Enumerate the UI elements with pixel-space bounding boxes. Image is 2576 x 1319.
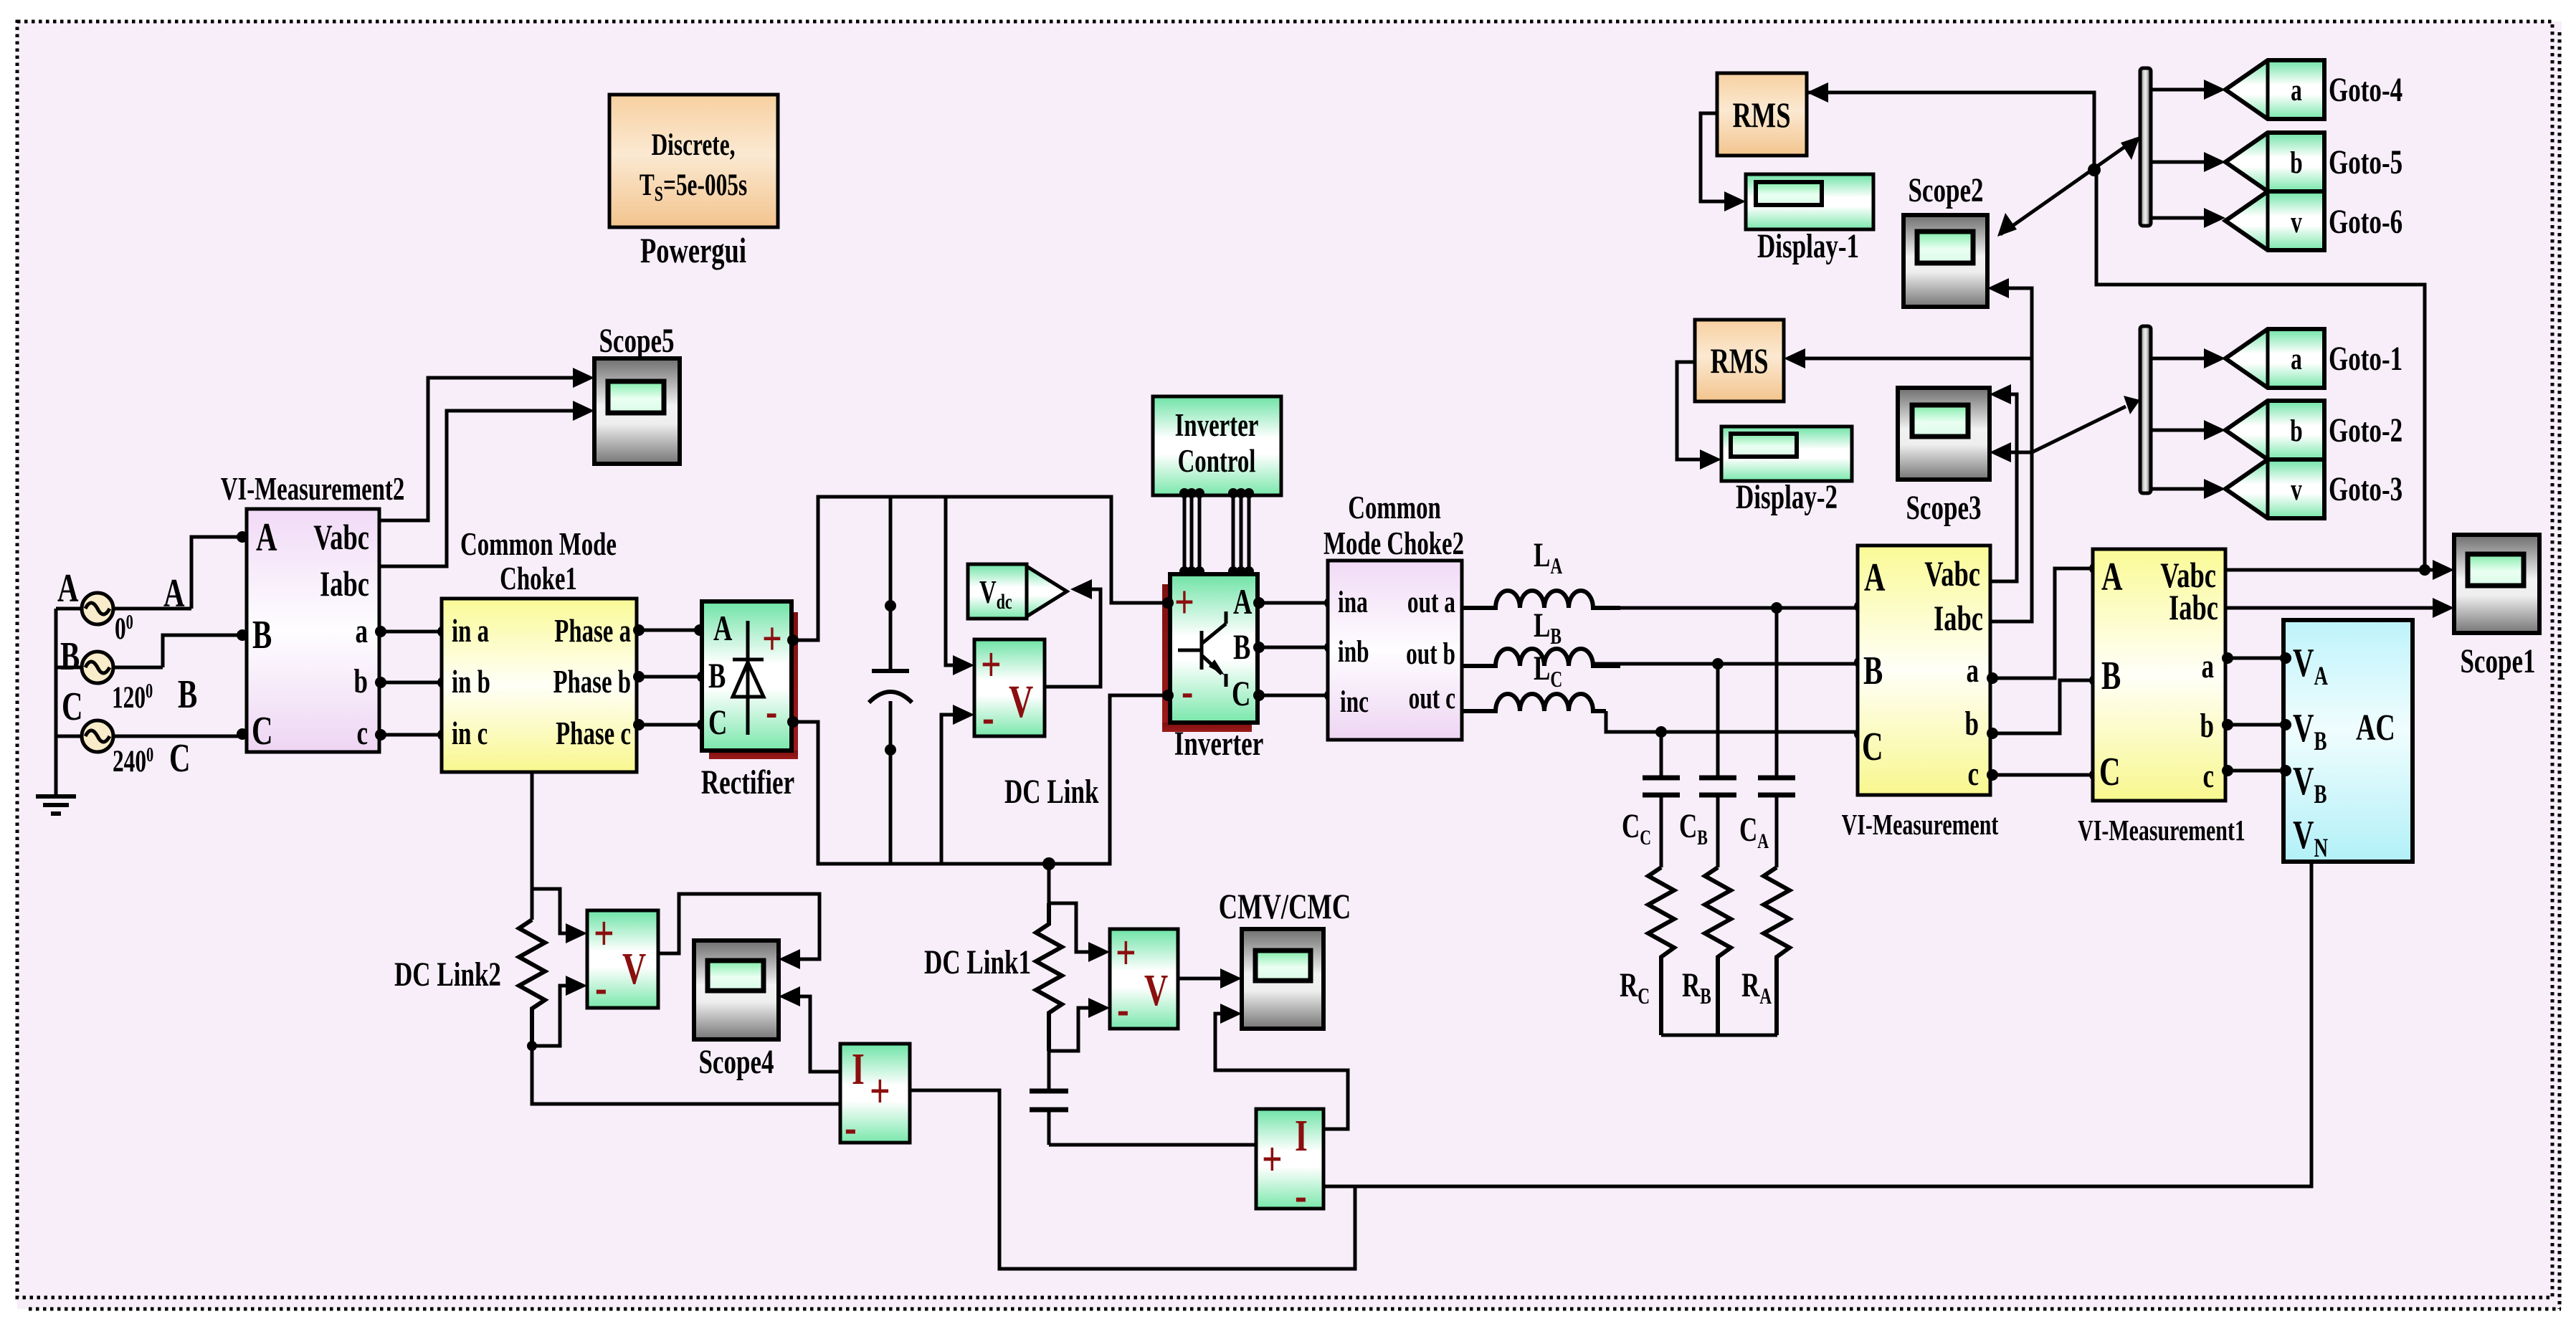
svg-text:RMS: RMS xyxy=(1710,342,1768,381)
wire VI-Measurement c to VI-Measurement1 C xyxy=(1987,769,2101,781)
svg-text:-: - xyxy=(1295,1168,1307,1223)
svg-text:a: a xyxy=(355,613,368,651)
Scope5 xyxy=(594,323,680,464)
svg-text:out a: out a xyxy=(1407,585,1455,619)
svg-text:A: A xyxy=(1864,555,1886,600)
wire RC network common bus xyxy=(1661,1034,1777,1037)
svg-text:Display-1: Display-1 xyxy=(1757,228,1859,266)
RMS block 1 xyxy=(1717,73,1807,156)
Display-1 block xyxy=(1746,174,1873,265)
wire Choke1 Phase c to Rectifier C xyxy=(633,719,708,730)
svg-text:b: b xyxy=(2290,146,2302,180)
svg-text:Display-2: Display-2 xyxy=(1736,479,1838,517)
svg-text:Phase b: Phase b xyxy=(553,664,631,700)
I1 current measurement block xyxy=(840,1044,910,1155)
Goto-1 tag xyxy=(2225,329,2402,388)
svg-text:Scope5: Scope5 xyxy=(599,323,674,361)
svg-text:DC Link1: DC Link1 xyxy=(924,944,1031,982)
wire source common bus to ground xyxy=(54,609,58,796)
Vdc display block xyxy=(968,564,1067,619)
svg-text:v: v xyxy=(2291,205,2302,239)
svg-text:Common Mode: Common Mode xyxy=(460,526,617,562)
wire LB to VI-Measurement B xyxy=(1594,657,1866,670)
svg-text:Vabc: Vabc xyxy=(1924,555,1980,594)
Common Mode Choke2 block xyxy=(1323,490,1464,740)
svg-text:c: c xyxy=(356,715,368,753)
svg-text:Goto-2: Goto-2 xyxy=(2329,412,2402,450)
svg-text:b: b xyxy=(354,663,368,701)
svg-text:a: a xyxy=(1966,652,1979,690)
resistor RB xyxy=(1682,867,1731,1035)
svg-text:I: I xyxy=(852,1044,865,1094)
VI-Measurement2 block xyxy=(221,471,405,753)
svg-text:in a: in a xyxy=(452,613,489,649)
svg-text:DC Link: DC Link xyxy=(1004,773,1099,811)
wire Choke1 Phase b to Rectifier B xyxy=(633,671,708,682)
svg-text:VI-Measurement2: VI-Measurement2 xyxy=(221,471,405,507)
svg-text:Phase c: Phase c xyxy=(556,715,631,751)
wire distribution diagonal to Scope2 and demux1 xyxy=(1997,136,2140,237)
svg-text:Scope2: Scope2 xyxy=(1908,172,1983,210)
wire demux2 to Goto-2 xyxy=(2151,420,2225,440)
svg-text:Goto-6: Goto-6 xyxy=(2329,204,2402,242)
svg-text:a: a xyxy=(2201,648,2214,686)
svg-text:V: V xyxy=(622,943,646,994)
svg-text:B: B xyxy=(178,672,197,717)
wire tap to V1 minus xyxy=(527,976,587,1051)
wire demux1 to Goto-4 xyxy=(2151,80,2225,100)
svg-text:in c: in c xyxy=(452,715,488,751)
wire V-block output to Vdc display xyxy=(1045,579,1101,687)
svg-text:Rectifier: Rectifier xyxy=(701,764,794,802)
svg-text:C: C xyxy=(62,684,83,729)
wire VI-Measurement1 a to AC VA xyxy=(2222,652,2291,664)
wire RMS1 to Display-1 xyxy=(1701,113,1746,211)
wire Vabc1 riser to top distribution xyxy=(2096,170,2425,570)
svg-text:inc: inc xyxy=(1340,685,1369,719)
svg-text:Scope1: Scope1 xyxy=(2460,643,2535,681)
capacitor DC Link1 xyxy=(1030,1051,1068,1145)
Common Mode Choke1 block xyxy=(442,526,637,772)
svg-text:in b: in b xyxy=(452,664,490,700)
svg-text:C: C xyxy=(2099,749,2121,794)
wire phase C to VI-Measurement2 C xyxy=(169,728,248,781)
svg-text:A: A xyxy=(713,609,733,649)
svg-text:inb: inb xyxy=(1338,634,1369,669)
svg-text:+: + xyxy=(1116,925,1136,981)
wire VI-Measurement1 b to AC VB xyxy=(2222,719,2291,730)
Goto-3 tag xyxy=(2225,459,2402,518)
wire VI-Measurement2 a to Choke1 in a xyxy=(375,626,449,637)
svg-text:Mode Choke2: Mode Choke2 xyxy=(1323,525,1464,561)
wire phase A to VI-Measurement2 A xyxy=(163,531,248,616)
wire VI-Measurement1 Vabc to Scope1 input 1 xyxy=(2225,560,2454,580)
wire Choke1 Phase a to Rectifier A xyxy=(633,624,705,636)
inductor LA xyxy=(1462,537,1620,608)
AC load block xyxy=(2283,620,2413,863)
svg-text:Powergui: Powergui xyxy=(640,232,746,271)
svg-text:V: V xyxy=(1009,676,1033,728)
svg-text:+: + xyxy=(762,612,782,665)
svg-text:+: + xyxy=(870,1064,890,1119)
svg-text:c: c xyxy=(2202,758,2214,796)
svg-text:-: - xyxy=(766,685,777,738)
wire phase B to VI-Measurement2 B xyxy=(163,629,248,717)
svg-text:+: + xyxy=(1262,1132,1283,1187)
DC link capacitor xyxy=(869,497,912,864)
Scope3 xyxy=(1898,388,1990,527)
svg-text:b: b xyxy=(2200,708,2214,746)
svg-text:Goto-5: Goto-5 xyxy=(2329,144,2402,182)
wire Iabc junction to Scope3 input 2 xyxy=(1990,442,2032,462)
capacitor CB xyxy=(1679,664,1736,867)
Scope2 xyxy=(1904,172,1987,307)
svg-text:A: A xyxy=(2101,554,2123,599)
V1 voltage measurement block xyxy=(587,906,658,1015)
wire LA to VI-Measurement A xyxy=(1594,601,1866,614)
wire V1 output to Scope4 input 1 xyxy=(658,894,819,969)
svg-text:Inverter: Inverter xyxy=(1175,407,1259,443)
wire DC plus tap to V-block plus xyxy=(946,497,974,675)
gate wires Inverter Control to Inverter xyxy=(1179,488,1254,576)
svg-text:VI-Measurement1: VI-Measurement1 xyxy=(2078,814,2245,847)
resistor DC Link1 xyxy=(924,903,1062,1051)
Inverter block xyxy=(1162,574,1265,763)
wire tap to V2 minus xyxy=(1049,998,1110,1051)
svg-text:Goto-3: Goto-3 xyxy=(2329,471,2402,509)
svg-text:b: b xyxy=(2290,414,2302,448)
inductor LB xyxy=(1462,607,1620,666)
svg-text:b: b xyxy=(1965,705,1979,743)
Display-2 block xyxy=(1721,427,1852,516)
svg-text:+: + xyxy=(1174,576,1194,629)
wire V-block minus to DC bottom rail xyxy=(941,705,974,864)
svg-text:B: B xyxy=(1233,628,1250,667)
wire VI-Measurement Iabc riser xyxy=(1987,278,2032,622)
Rectifier block xyxy=(701,601,798,801)
V2 voltage measurement block xyxy=(1110,925,1178,1037)
svg-text:v: v xyxy=(2291,472,2302,507)
demux bar 2 xyxy=(2140,326,2151,493)
wire demux2 to Goto-1 xyxy=(2151,348,2225,368)
svg-text:B: B xyxy=(708,657,726,696)
wire I2 output to CMV scope input 2 xyxy=(1215,1004,1348,1129)
demux bar 1 xyxy=(2140,68,2151,226)
svg-text:Inverter: Inverter xyxy=(1174,725,1264,763)
wire I2 minus to AC VN neutral xyxy=(1323,862,2311,1186)
inductor LC xyxy=(1462,650,1606,711)
Scope4 xyxy=(694,941,779,1081)
ground xyxy=(36,796,76,814)
svg-text:A: A xyxy=(256,515,277,560)
voltage source VA (0 deg) xyxy=(56,566,191,647)
svg-text:RMS: RMS xyxy=(1732,96,1790,135)
svg-text:V: V xyxy=(1144,965,1168,1015)
wire capacitor to I2 plus xyxy=(1049,1143,1256,1147)
I2 current measurement block xyxy=(1256,1109,1323,1223)
svg-text:DC Link2: DC Link2 xyxy=(394,956,501,994)
svg-text:VI-Measurement: VI-Measurement xyxy=(1842,808,1999,841)
wire Rectifier plus to DC top rail xyxy=(787,497,1166,646)
wire Inverter B to Choke2 inb xyxy=(1258,642,1336,653)
svg-text:Discrete,: Discrete, xyxy=(651,128,735,162)
svg-text:out c: out c xyxy=(1409,681,1455,715)
resistor RC xyxy=(1620,867,1674,1035)
wire demux1 to Goto-5 xyxy=(2151,152,2225,172)
wire DC bottom rail tap to DC Link1 xyxy=(1042,857,1110,962)
svg-text:C: C xyxy=(1232,675,1250,714)
svg-text:B: B xyxy=(2101,653,2121,698)
svg-text:B: B xyxy=(252,612,272,657)
svg-text:a: a xyxy=(2291,342,2302,376)
wire VI-Measurement Vabc to Scope3 input 1 xyxy=(1990,384,2017,581)
wire RMS2 to Display-2 xyxy=(1677,362,1721,470)
svg-text:+: + xyxy=(594,906,614,961)
wire Iabc junction to RMS2 xyxy=(1784,348,2032,368)
capacitor CC xyxy=(1622,732,1680,867)
svg-text:-: - xyxy=(1117,981,1129,1037)
svg-text:c: c xyxy=(1967,756,1979,794)
RMS block 2 xyxy=(1695,320,1784,401)
wire VI-Measurement2 c to Choke1 in c xyxy=(375,729,449,741)
wire VI-Measurement2 Iabc to Scope5 input 2 xyxy=(379,401,594,566)
Scope1 xyxy=(2454,535,2539,680)
wire Inverter A to Choke2 ina xyxy=(1258,597,1336,609)
svg-text:-: - xyxy=(982,690,994,745)
wire demux2 to Goto-3 xyxy=(2151,479,2225,499)
VI-Measurement1 block xyxy=(2078,549,2245,847)
wire VI-Measurement1 c to AC VB2 xyxy=(2222,765,2291,776)
svg-text:A: A xyxy=(163,571,185,616)
DC Link voltage measurement block xyxy=(974,637,1099,811)
wire VI-Measurement2 b to Choke1 in b xyxy=(375,677,449,688)
wire LC to VI-Measurement C xyxy=(1606,711,1866,740)
Goto-5 tag xyxy=(2225,133,2402,191)
svg-text:Iabc: Iabc xyxy=(320,565,369,604)
Goto-2 tag xyxy=(2225,401,2402,459)
svg-text:-: - xyxy=(845,1100,857,1155)
voltage source VB (120 deg) xyxy=(56,634,163,715)
svg-text:C: C xyxy=(708,703,727,743)
svg-text:ina: ina xyxy=(1338,585,1368,619)
svg-text:B: B xyxy=(60,634,80,679)
voltage source VC (240 deg) xyxy=(56,684,241,779)
svg-text:CMV/CMC: CMV/CMC xyxy=(1219,887,1351,927)
svg-text:Goto-4: Goto-4 xyxy=(2329,72,2402,110)
wire Inverter C to Choke2 inc xyxy=(1258,690,1336,701)
resistor RA xyxy=(1741,867,1790,1035)
svg-text:a: a xyxy=(2291,73,2302,108)
svg-text:AC: AC xyxy=(2356,706,2395,748)
svg-text:-: - xyxy=(595,960,607,1015)
svg-text:-: - xyxy=(1182,665,1193,718)
wire demux1 to Goto-6 xyxy=(2151,208,2225,228)
VI-Measurement block xyxy=(1842,546,1999,841)
svg-text:Goto-1: Goto-1 xyxy=(2329,341,2402,378)
svg-text:Iabc: Iabc xyxy=(2169,589,2218,628)
capacitor CA xyxy=(1739,608,1795,867)
svg-text:C: C xyxy=(1862,724,1883,769)
svg-text:Common: Common xyxy=(1348,490,1441,525)
wire VI-Measurement1 Iabc to Scope1 input 2 xyxy=(2225,598,2454,618)
Inverter Control block xyxy=(1153,396,1281,495)
svg-text:Control: Control xyxy=(1178,443,1256,479)
svg-text:out b: out b xyxy=(1406,637,1455,671)
wire I1 output to Scope4 input 2 xyxy=(779,986,840,1072)
Goto-6 tag xyxy=(2225,191,2402,250)
Goto-4 tag xyxy=(2225,60,2402,119)
wire V2 output to CMV scope input 1 xyxy=(1178,968,1242,989)
svg-text:Phase a: Phase a xyxy=(554,613,631,649)
wire Rectifier minus to DC bottom rail xyxy=(787,695,1166,864)
wire tap to V1 plus xyxy=(532,889,587,943)
svg-text:Choke1: Choke1 xyxy=(500,561,577,596)
wire VI-Measurement a to VI-Measurement1 A xyxy=(1987,563,2101,684)
svg-text:A: A xyxy=(1233,583,1253,622)
resistor DC Link2 xyxy=(394,920,545,1046)
wire VI-Measurement b to VI-Measurement1 B xyxy=(1987,675,2101,739)
CMV/CMC scope xyxy=(1219,887,1351,1029)
wire DC Link2 bottom to I1 minus xyxy=(532,1046,840,1104)
svg-text:Scope4: Scope4 xyxy=(698,1044,774,1082)
svg-text:Scope3: Scope3 xyxy=(1906,490,1981,528)
svg-text:Iabc: Iabc xyxy=(1934,599,1983,639)
wire I1 plus to neutral return xyxy=(910,1090,1355,1269)
wire Choke1 bottom to DC Link2 xyxy=(531,772,534,920)
svg-text:Vabc: Vabc xyxy=(313,518,369,558)
Powergui block xyxy=(609,95,778,270)
svg-text:+: + xyxy=(981,637,1002,692)
svg-text:I: I xyxy=(1295,1110,1308,1161)
wire distribution dot to RMS1 xyxy=(1807,82,2094,170)
svg-text:B: B xyxy=(1863,648,1883,693)
svg-text:C: C xyxy=(169,735,191,781)
svg-text:A: A xyxy=(57,566,79,611)
svg-text:C: C xyxy=(252,708,273,753)
wire VI-Measurement2 Vabc to Scope5 input 1 xyxy=(379,368,594,520)
wire Iabc junction to demux2 xyxy=(2032,396,2140,452)
